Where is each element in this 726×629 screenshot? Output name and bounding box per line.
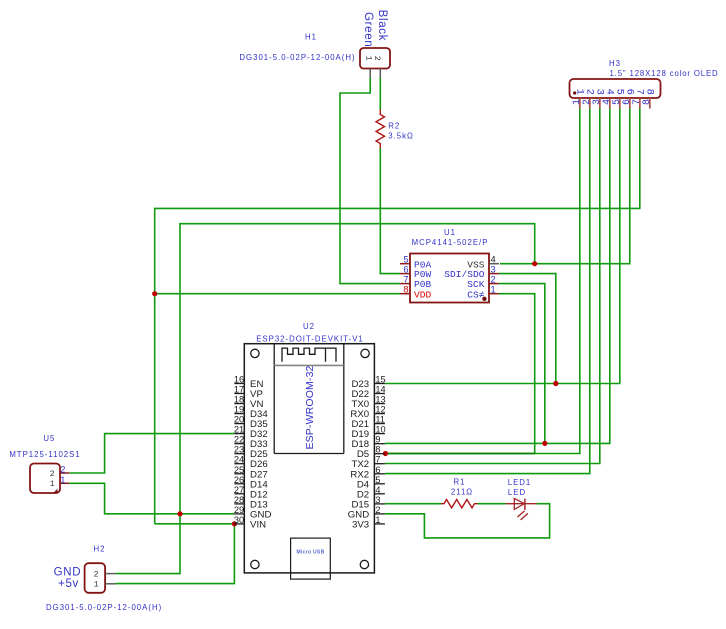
svg-text:13: 13 bbox=[375, 395, 385, 405]
svg-text:2: 2 bbox=[372, 56, 382, 61]
svg-text:10: 10 bbox=[375, 425, 385, 435]
svg-text:DG301-5.0-02P-12-00A(H): DG301-5.0-02P-12-00A(H) bbox=[46, 603, 162, 612]
svg-text:1: 1 bbox=[491, 285, 496, 295]
svg-text:H1: H1 bbox=[305, 33, 317, 42]
svg-text:22: 22 bbox=[234, 435, 244, 445]
svg-text:H3: H3 bbox=[609, 59, 621, 68]
svg-text:LED1: LED1 bbox=[508, 478, 532, 487]
svg-text:21: 21 bbox=[234, 425, 244, 435]
svg-text:U2: U2 bbox=[303, 322, 315, 331]
svg-text:2: 2 bbox=[375, 505, 380, 515]
svg-text:3V3: 3V3 bbox=[352, 519, 369, 530]
svg-text:CS≠: CS≠ bbox=[467, 289, 485, 300]
svg-text:2: 2 bbox=[94, 569, 99, 579]
svg-text:MCP4141-502E/P: MCP4141-502E/P bbox=[412, 238, 489, 247]
svg-text:ESP-WROOM-32: ESP-WROOM-32 bbox=[304, 365, 316, 449]
svg-text:20: 20 bbox=[234, 415, 244, 425]
svg-text:1: 1 bbox=[60, 475, 65, 485]
svg-text:211Ω: 211Ω bbox=[451, 488, 473, 497]
svg-text:9: 9 bbox=[375, 435, 380, 445]
svg-text:3: 3 bbox=[375, 495, 380, 505]
svg-text:5: 5 bbox=[375, 475, 380, 485]
svg-text:7: 7 bbox=[375, 455, 380, 465]
svg-text:3.5kΩ: 3.5kΩ bbox=[388, 132, 414, 141]
svg-text:19: 19 bbox=[234, 405, 244, 415]
svg-text:8: 8 bbox=[642, 99, 653, 105]
svg-text:DG301-5.0-02P-12-00A(H): DG301-5.0-02P-12-00A(H) bbox=[239, 53, 355, 62]
svg-text:7: 7 bbox=[403, 275, 408, 285]
svg-text:5: 5 bbox=[403, 255, 408, 265]
svg-text:Green: Green bbox=[362, 12, 374, 47]
svg-text:U1: U1 bbox=[444, 228, 456, 237]
svg-text:23: 23 bbox=[234, 445, 244, 455]
svg-text:U5: U5 bbox=[43, 434, 55, 443]
svg-text:27: 27 bbox=[234, 485, 244, 495]
svg-text:4: 4 bbox=[491, 255, 496, 265]
svg-text:26: 26 bbox=[234, 475, 244, 485]
svg-text:Micro USB: Micro USB bbox=[297, 550, 325, 556]
svg-text:12: 12 bbox=[375, 405, 385, 415]
svg-text:MTP125-1102S1: MTP125-1102S1 bbox=[9, 450, 80, 459]
svg-text:2: 2 bbox=[50, 469, 55, 479]
svg-text:1: 1 bbox=[375, 515, 380, 525]
svg-text:8: 8 bbox=[643, 89, 655, 95]
svg-text:1.5" 128X128 color OLED: 1.5" 128X128 color OLED bbox=[610, 69, 719, 78]
svg-text:16: 16 bbox=[234, 375, 244, 385]
svg-text:28: 28 bbox=[234, 495, 244, 505]
svg-text:29: 29 bbox=[234, 505, 244, 515]
svg-text:1: 1 bbox=[94, 580, 99, 590]
svg-text:LED: LED bbox=[508, 488, 526, 497]
svg-text:4: 4 bbox=[375, 485, 380, 495]
svg-text:2: 2 bbox=[491, 275, 496, 285]
svg-text:6: 6 bbox=[375, 465, 380, 475]
svg-text:24: 24 bbox=[234, 455, 244, 465]
svg-text:6: 6 bbox=[403, 265, 408, 275]
svg-text:VIN: VIN bbox=[250, 519, 266, 530]
svg-text:R1: R1 bbox=[454, 478, 466, 487]
svg-text:25: 25 bbox=[234, 465, 244, 475]
svg-text:R2: R2 bbox=[388, 122, 400, 131]
svg-text:8: 8 bbox=[375, 445, 380, 455]
svg-text:H2: H2 bbox=[94, 545, 106, 554]
svg-text:11: 11 bbox=[375, 415, 385, 425]
svg-text:8: 8 bbox=[403, 285, 408, 295]
svg-text:Black: Black bbox=[376, 10, 388, 42]
svg-text:30: 30 bbox=[234, 515, 244, 525]
svg-text:VDD: VDD bbox=[414, 289, 432, 300]
svg-text:+5v: +5v bbox=[58, 578, 79, 590]
svg-text:ESP32-DOIT-DEVKIT-V1: ESP32-DOIT-DEVKIT-V1 bbox=[256, 335, 364, 344]
svg-text:18: 18 bbox=[234, 395, 244, 405]
svg-text:2: 2 bbox=[60, 465, 65, 475]
svg-text:GND: GND bbox=[54, 567, 82, 579]
svg-text:14: 14 bbox=[375, 385, 385, 395]
svg-text:1: 1 bbox=[50, 479, 55, 489]
svg-text:15: 15 bbox=[375, 375, 385, 385]
svg-text:17: 17 bbox=[234, 385, 244, 395]
svg-text:3: 3 bbox=[491, 265, 496, 275]
